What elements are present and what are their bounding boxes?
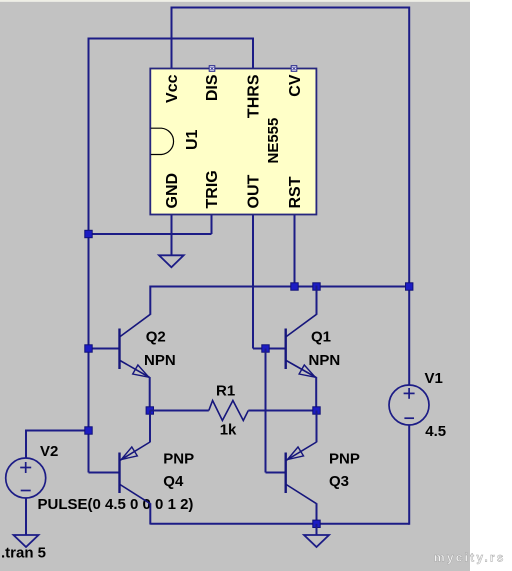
svg-text:mycity.rs: mycity.rs <box>434 551 506 565</box>
svg-text:Q3: Q3 <box>329 473 349 490</box>
svg-text:OUT: OUT <box>246 175 263 209</box>
node Q2 base junction <box>85 345 92 352</box>
node OUT junction <box>262 345 269 352</box>
resistor R1 <box>150 401 317 421</box>
svg-text:U1: U1 <box>184 129 201 150</box>
node RST junction <box>291 283 298 290</box>
wire Vcc top horizontal <box>172 7 410 9</box>
svg-text:Vcc: Vcc <box>164 74 181 103</box>
wire THRS horizontal <box>89 38 255 40</box>
wire GND pin vertical <box>171 215 173 256</box>
svg-text:PNP: PNP <box>163 451 194 468</box>
wire Q3 base branch vertical <box>265 349 267 473</box>
svg-text:R1: R1 <box>216 382 235 399</box>
wire Q2 base <box>89 348 120 350</box>
svg-text:Q4: Q4 <box>163 473 184 490</box>
wire Vcc pin vertical <box>171 7 173 70</box>
transistor Q2 <box>120 286 151 412</box>
node TRIG junction <box>85 230 92 237</box>
transistor Q1 <box>286 286 317 412</box>
wire Q3 base lead <box>266 472 286 474</box>
wire OUT to Q1 base <box>253 348 285 350</box>
wire OUT pin vertical <box>252 215 254 349</box>
svg-text:PNP: PNP <box>329 451 360 468</box>
wire V2 bottom vertical <box>25 498 27 535</box>
wire TRIG horizontal <box>89 233 212 235</box>
svg-text:RST: RST <box>287 176 304 208</box>
pin square DIS <box>209 66 215 72</box>
svg-text:1k: 1k <box>220 422 237 439</box>
svg-text:.tran 5: .tran 5 <box>1 545 46 562</box>
svg-text:THRS: THRS <box>246 74 263 118</box>
wire V2 top vertical <box>25 430 27 459</box>
node emitter junction left <box>146 407 153 414</box>
svg-text:PULSE(0 4.5 0 0 0 1 2): PULSE(0 4.5 0 0 0 1 2) <box>38 496 194 513</box>
svg-text:TRIG: TRIG <box>204 170 221 208</box>
wire TRIG pin vertical <box>211 215 213 234</box>
node V1 rail junction <box>406 283 413 290</box>
svg-text:NPN: NPN <box>144 352 176 369</box>
node V2 junction <box>85 427 92 434</box>
wire top rail <box>150 286 409 288</box>
ground V2 <box>14 535 39 547</box>
IC U1 NE555 body <box>150 69 316 215</box>
wire Q4 base lead <box>89 472 120 474</box>
wire THRS pin vertical <box>252 39 254 70</box>
wire V1 bottom vertical <box>408 425 410 525</box>
svg-text:DIS: DIS <box>204 74 221 101</box>
wire V2 top horizontal <box>26 430 89 432</box>
svg-text:NE555: NE555 <box>265 118 282 164</box>
node bottom ground junction <box>313 520 320 527</box>
wire left rail vertical <box>88 38 90 473</box>
voltage source V1 <box>389 385 429 425</box>
transistor Q4 <box>120 411 151 525</box>
ground under GND pin <box>159 255 184 267</box>
pin square CV <box>291 66 297 72</box>
svg-text:Q1: Q1 <box>311 329 331 346</box>
svg-text:GND: GND <box>164 173 181 209</box>
wire RST pin vertical <box>294 215 296 287</box>
node emitter junction right <box>313 407 320 414</box>
svg-text:4.5: 4.5 <box>425 423 446 440</box>
transistor Q3 <box>286 411 317 525</box>
voltage source V2 <box>6 458 46 498</box>
node Q1 collector junction <box>313 283 320 290</box>
wire right rail vertical <box>408 7 410 386</box>
svg-text:V2: V2 <box>40 443 58 460</box>
svg-text:Q2: Q2 <box>146 329 166 346</box>
svg-text:CV: CV <box>287 74 304 97</box>
svg-text:V1: V1 <box>425 370 443 387</box>
wire bottom rail <box>150 523 409 525</box>
svg-text:NPN: NPN <box>309 352 341 369</box>
ground bottom <box>304 524 329 547</box>
